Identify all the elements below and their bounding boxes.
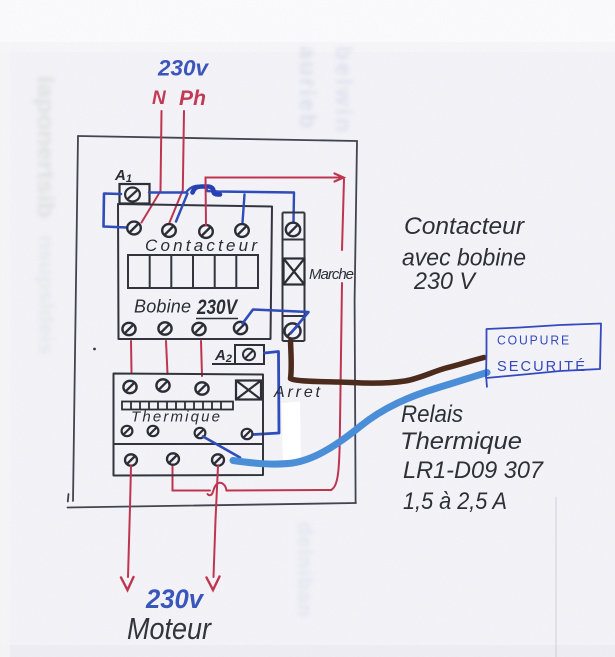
svg-text:belwin: belwin xyxy=(331,46,357,132)
correction patch xyxy=(282,402,302,465)
terminal T1 coil xyxy=(122,323,135,335)
wire blue drop to 13 xyxy=(243,195,245,223)
svg-text:230v: 230v xyxy=(157,56,210,81)
wire red L3 to marche loop xyxy=(173,174,345,496)
terminal 13NO xyxy=(235,224,249,237)
thermal bottom terminal 3 xyxy=(212,454,224,465)
marche contact box xyxy=(284,259,305,285)
svg-text:Thermique: Thermique xyxy=(400,428,522,455)
marche bottom terminal xyxy=(285,323,301,338)
wire red T3 to thermal xyxy=(201,341,202,376)
terminal L2 xyxy=(162,224,176,237)
wire red T2 to thermal xyxy=(166,341,168,374)
terminal T2 coil xyxy=(158,322,171,334)
wire blue bus to marche top xyxy=(149,186,294,222)
terminal T3 coil xyxy=(192,323,205,335)
label Thermique xyxy=(131,409,220,426)
A2 terminal box xyxy=(212,345,264,364)
thermal adjustment bar xyxy=(122,402,233,410)
label Bobine 230V xyxy=(134,296,239,319)
A1 terminal box xyxy=(120,184,150,204)
coil box xyxy=(128,255,258,288)
label contacteur note xyxy=(402,213,526,295)
terminal L3 xyxy=(199,225,213,238)
svg-text:nsupsldeis: nsupsldeis xyxy=(34,235,57,355)
svg-text:Ph: Ph xyxy=(179,87,206,110)
svg-text:Bobine: Bobine xyxy=(134,297,191,317)
wire blue coil to marche xyxy=(243,310,309,334)
label COUPURE xyxy=(497,333,571,348)
label A2 xyxy=(214,347,232,365)
thermal terminal 2 xyxy=(156,379,169,391)
label Ph xyxy=(179,87,206,110)
svg-text:230 V: 230 V xyxy=(413,268,477,295)
label relais note xyxy=(400,401,545,515)
enclosure outline xyxy=(68,136,358,508)
thermal terminal 1 xyxy=(123,381,136,393)
wire red T1 to thermal xyxy=(130,341,133,372)
thermal mid terminal 4 xyxy=(242,429,253,439)
svg-text:N: N xyxy=(152,88,167,109)
svg-text:Moteur: Moteur xyxy=(127,611,212,646)
thermal mid terminal 1 xyxy=(122,426,133,436)
wire red motor 2 xyxy=(207,466,220,590)
label Contacteur xyxy=(145,236,258,255)
wire blue A1 loop xyxy=(104,194,128,228)
svg-text:Marche: Marche xyxy=(309,266,354,283)
wire N phase in xyxy=(142,111,162,223)
wire red motor 1 xyxy=(121,466,134,590)
wire blue drop to L2 xyxy=(176,194,188,222)
svg-text:delniban: delniban xyxy=(293,522,316,617)
svg-text:Iaponertsib: Iaponertsib xyxy=(33,76,59,218)
wire Ph phase in xyxy=(170,111,185,223)
thermal bottom terminal 2 xyxy=(167,453,179,464)
label Marche xyxy=(309,266,354,283)
wire brown coupure xyxy=(291,341,485,383)
label motor 230V xyxy=(145,584,205,614)
thermal contact box xyxy=(236,381,261,400)
label Moteur xyxy=(127,611,212,646)
terminal L1 xyxy=(127,222,141,235)
label 230V supply xyxy=(157,56,210,81)
wire blue coupure xyxy=(233,373,487,465)
svg-text:Contacteur: Contacteur xyxy=(145,236,258,255)
label N xyxy=(152,88,167,109)
svg-text:Relais: Relais xyxy=(401,401,463,428)
marche strip xyxy=(283,213,305,342)
svg-text:LR1-D09 307: LR1-D09 307 xyxy=(403,457,545,484)
thermal mid terminal 3 xyxy=(195,428,206,438)
thermal relay body xyxy=(114,374,264,476)
svg-text:230v: 230v xyxy=(145,584,205,614)
svg-text:SECURITÉ: SECURITÉ xyxy=(497,358,587,375)
thermal mid terminal 2 xyxy=(148,426,159,436)
thermal bottom terminal 1 xyxy=(125,454,137,465)
wire blue thermal link xyxy=(203,437,240,458)
label Arret xyxy=(273,384,321,401)
svg-text:Thermique: Thermique xyxy=(131,409,220,426)
marche top terminal xyxy=(286,223,300,237)
coupure securite box xyxy=(486,324,601,388)
svg-text:COUPURE: COUPURE xyxy=(497,333,571,348)
terminal 14NO xyxy=(234,322,247,334)
svg-text:Contacteur: Contacteur xyxy=(404,213,525,240)
contactor KM1 body xyxy=(118,204,272,339)
svg-text:1,5 à 2,5 A: 1,5 à 2,5 A xyxy=(403,488,507,515)
svg-text:230V: 230V xyxy=(196,296,238,319)
label A1 xyxy=(114,167,132,185)
thermal terminal 3 xyxy=(195,382,208,394)
label SECURITE xyxy=(497,358,587,375)
wire blue A2 to arret xyxy=(254,352,280,435)
